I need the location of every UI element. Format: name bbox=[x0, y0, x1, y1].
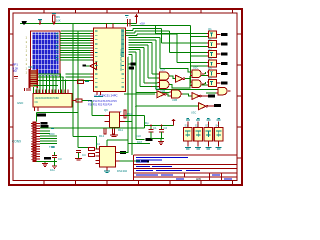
svg-text:R9: R9 bbox=[56, 15, 60, 19]
svg-text:Q9: Q9 bbox=[104, 108, 108, 112]
svg-text:+5: +5 bbox=[39, 19, 43, 23]
svg-text:+5V: +5V bbox=[140, 22, 145, 26]
svg-text:CON9: CON9 bbox=[12, 140, 21, 144]
svg-text:C3: C3 bbox=[58, 157, 62, 161]
svg-text:10u: 10u bbox=[50, 168, 55, 172]
svg-text:CLK: CLK bbox=[136, 134, 141, 138]
svg-text:P20 P21 P22 P23 P24: P20 P21 P22 P23 P24 bbox=[88, 104, 113, 107]
svg-text:Q4: Q4 bbox=[208, 56, 212, 60]
svg-text:1D2D3D4D5D6D7D8D: 1D2D3D4D5D6D7D8D bbox=[35, 97, 60, 100]
svg-text:S1: S1 bbox=[185, 124, 189, 128]
svg-text:U4: U4 bbox=[96, 142, 100, 146]
svg-text:U1 AT89C51 24PC: U1 AT89C51 24PC bbox=[94, 94, 118, 98]
svg-text:R12: R12 bbox=[99, 134, 105, 138]
svg-text:S4: S4 bbox=[215, 124, 219, 128]
svg-text:U3A: U3A bbox=[155, 87, 160, 91]
svg-text:DAT: DAT bbox=[137, 140, 142, 144]
svg-text:Q3: Q3 bbox=[208, 46, 212, 50]
svg-text:U3B: U3B bbox=[172, 98, 177, 102]
svg-text:U2A: U2A bbox=[160, 68, 165, 72]
svg-text:R11: R11 bbox=[118, 128, 123, 132]
svg-text:C4: C4 bbox=[82, 153, 86, 157]
svg-text:TXD: TXD bbox=[49, 145, 54, 149]
svg-text:RP1: RP1 bbox=[29, 65, 35, 69]
svg-text:HW: HW bbox=[196, 177, 201, 181]
svg-text:P2: P2 bbox=[14, 69, 18, 73]
svg-text:U3C: U3C bbox=[191, 111, 196, 115]
svg-text:S2: S2 bbox=[195, 124, 199, 128]
svg-text:RXD: RXD bbox=[49, 132, 55, 136]
svg-text:OC: OC bbox=[35, 101, 39, 104]
svg-text:Q6: Q6 bbox=[208, 76, 212, 80]
svg-text:Q5: Q5 bbox=[208, 66, 212, 70]
svg-text:C2: C2 bbox=[164, 126, 168, 130]
svg-text:DS1302: DS1302 bbox=[117, 169, 128, 173]
svg-text:GND: GND bbox=[17, 101, 23, 105]
svg-text:U2C: U2C bbox=[193, 66, 198, 70]
svg-text:P0.0P0.1P0.2P0.3: P0.0P0.1P0.2P0.3 bbox=[119, 49, 123, 71]
svg-text:C1: C1 bbox=[153, 126, 157, 130]
svg-text:Q1: Q1 bbox=[208, 27, 212, 31]
svg-text:10K: 10K bbox=[56, 19, 61, 23]
svg-text:S3: S3 bbox=[205, 124, 209, 128]
svg-text:Q2: Q2 bbox=[208, 37, 212, 41]
svg-text:T: T bbox=[120, 110, 122, 114]
